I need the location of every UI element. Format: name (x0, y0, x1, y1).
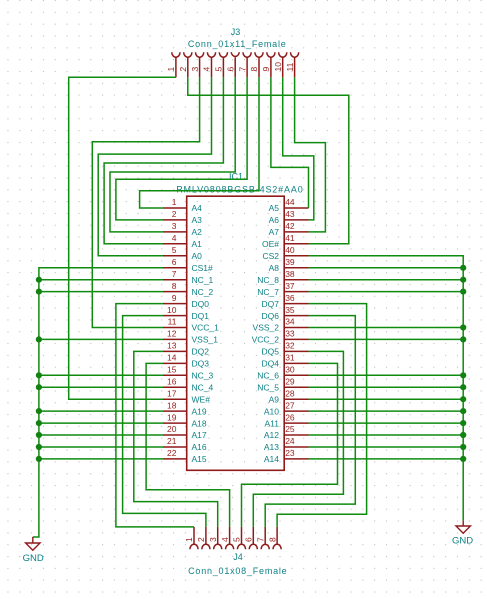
junction left rail row 15 (36, 372, 42, 378)
J4 pin 5 (232, 527, 246, 549)
svg-text:14: 14 (167, 353, 177, 363)
IC1 pin 28 (A9) (269, 388, 309, 404)
svg-text:A15: A15 (192, 454, 207, 464)
svg-text:21: 21 (167, 436, 177, 446)
wire IC1 VCC_2 to right GND rail (309, 338, 464, 340)
junction left rail row 20 (36, 432, 42, 438)
svg-text:Conn_01x08_Female: Conn_01x08_Female (188, 566, 287, 576)
wire IC1 DQ1 to J4 pin2 (123, 316, 206, 527)
svg-text:43: 43 (285, 209, 295, 219)
junction right rail row 16 (460, 384, 466, 390)
svg-text:DQ3: DQ3 (192, 359, 210, 369)
svg-text:NC_2: NC_2 (192, 287, 214, 297)
wire IC1 NC_2 to left GND rail (39, 291, 163, 293)
svg-text:1: 1 (172, 197, 177, 207)
svg-text:WE#: WE# (192, 394, 211, 404)
junction right rail row 12 (460, 336, 466, 342)
svg-text:8: 8 (172, 281, 177, 291)
svg-text:10: 10 (273, 62, 283, 72)
svg-text:GND: GND (452, 536, 473, 547)
wire IC1 A19 to left GND rail (39, 410, 163, 412)
svg-text:6: 6 (172, 257, 177, 267)
svg-text:DQ2: DQ2 (192, 347, 210, 357)
svg-text:30: 30 (285, 365, 295, 375)
IC1 pin 12 (VSS_1) (163, 329, 218, 345)
svg-text:VCC_2: VCC_2 (252, 335, 280, 345)
svg-text:A5: A5 (269, 203, 280, 213)
wire IC1 A12 to right GND rail (309, 434, 464, 436)
junction right rail row 8 (460, 289, 466, 295)
IC1 pin 25 (A12) (264, 424, 309, 440)
junction right rail row 19 (460, 420, 466, 426)
wire IC1 A11 to right GND rail (309, 422, 464, 424)
svg-text:12: 12 (167, 329, 177, 339)
wire IC1 NC_5 to right GND rail (309, 386, 464, 388)
wire IC1 DQ3 to J4 pin4 (146, 363, 230, 527)
svg-text:A14: A14 (264, 454, 279, 464)
svg-text:A19: A19 (192, 406, 207, 416)
svg-text:3: 3 (172, 221, 177, 231)
wire IC1 DQ6 to J4 pin7 (265, 316, 355, 527)
wire IC1 NC_7 to right GND rail (309, 291, 464, 293)
svg-text:2: 2 (178, 67, 188, 72)
IC1 pin 2 (A3) (163, 209, 202, 225)
svg-text:A0: A0 (192, 251, 203, 261)
svg-text:3: 3 (208, 537, 218, 542)
svg-text:NC_8: NC_8 (257, 275, 279, 285)
svg-text:26: 26 (285, 412, 295, 422)
svg-text:A4: A4 (192, 203, 203, 213)
svg-text:10: 10 (167, 305, 177, 315)
svg-text:A7: A7 (269, 227, 280, 237)
junction right rail row 11 (460, 324, 466, 330)
svg-text:NC_6: NC_6 (257, 371, 279, 381)
IC1 pin 17 (WE#) (163, 388, 210, 404)
wire IC1 NC_4 to left GND rail (39, 386, 163, 388)
IC1 pin 34 (VSS_2) (253, 317, 309, 333)
svg-text:2: 2 (196, 537, 206, 542)
wire J3 pin7 to IC1 A3 (116, 77, 247, 220)
svg-text:OE#: OE# (262, 239, 279, 249)
svg-text:33: 33 (285, 329, 295, 339)
svg-text:A3: A3 (192, 215, 203, 225)
IC1 pin 22 (A15) (163, 448, 207, 464)
junction right rail row 20 (460, 432, 466, 438)
svg-text:3: 3 (190, 67, 200, 72)
svg-text:A6: A6 (269, 215, 280, 225)
svg-text:J3: J3 (231, 27, 241, 37)
svg-text:A11: A11 (265, 418, 280, 428)
J3 pin 9 (261, 52, 275, 77)
svg-text:VSS_1: VSS_1 (192, 335, 219, 345)
IC1 pin 39 (A8) (269, 257, 309, 273)
svg-text:27: 27 (285, 400, 295, 410)
wire IC1 A14 to right GND rail (309, 458, 464, 460)
wire IC1 DQ7 to J4 pin8 (277, 304, 367, 527)
svg-text:17: 17 (167, 388, 177, 398)
svg-text:1: 1 (166, 67, 176, 72)
IC1 pin 20 (A17) (163, 424, 207, 440)
wire IC1 A10 to right GND rail (309, 410, 464, 412)
IC1 pin 31 (DQ4) (262, 353, 309, 369)
J4 pin 7 (255, 527, 269, 549)
svg-text:24: 24 (285, 436, 295, 446)
svg-text:4: 4 (220, 537, 230, 542)
svg-text:16: 16 (167, 376, 177, 386)
svg-text:NC_7: NC_7 (257, 287, 279, 297)
wire IC1 NC_1 to left GND rail (39, 279, 163, 281)
junction right rail row 7 (460, 277, 466, 283)
wire IC1 NC_8 to right GND rail (309, 279, 464, 281)
svg-text:A17: A17 (192, 430, 207, 440)
wire IC1 DQ2 to J4 pin3 (134, 351, 218, 527)
IC1 pin 5 (A0) (163, 245, 202, 261)
IC1 pin 23 (A14) (264, 448, 309, 464)
svg-text:A1: A1 (192, 239, 203, 249)
J4 pin 1 (184, 527, 198, 549)
IC1 pin 1 (A4) (163, 197, 202, 213)
IC1 pin 3 (A2) (163, 221, 202, 237)
svg-text:A16: A16 (192, 442, 207, 452)
IC1 pin 4 (A1) (163, 233, 202, 249)
IC1 pin 16 (NC_4) (163, 376, 214, 392)
svg-text:Conn_01x11_Female: Conn_01x11_Female (188, 39, 287, 49)
IC1 pin 15 (NC_3) (163, 365, 214, 381)
svg-text:29: 29 (285, 376, 295, 386)
svg-text:J4: J4 (233, 552, 243, 562)
junction left rail row 19 (36, 420, 42, 426)
svg-text:VSS_2: VSS_2 (253, 323, 280, 333)
svg-text:7: 7 (237, 67, 247, 72)
IC1 pin 13 (DQ2) (163, 341, 209, 357)
svg-text:DQ0: DQ0 (192, 299, 210, 309)
wire IC1 NC_3 to left GND rail (39, 374, 163, 376)
svg-text:34: 34 (285, 317, 295, 327)
wire J3 pin6 to IC1 A2 (110, 77, 235, 232)
svg-text:A2: A2 (192, 227, 203, 237)
svg-text:5: 5 (232, 537, 242, 542)
svg-text:28: 28 (285, 388, 295, 398)
svg-text:5: 5 (172, 245, 177, 255)
J4 pin 6 (244, 527, 258, 549)
svg-text:20: 20 (167, 424, 177, 434)
IC1 pin 38 (NC_8) (257, 269, 308, 285)
svg-text:15: 15 (167, 365, 177, 375)
wire J3 pin9 to IC1 A5 (271, 77, 309, 208)
junction left rail row 12 (36, 336, 42, 342)
IC1 pin 32 (DQ5) (262, 341, 309, 357)
wire IC1 VSS_2 to right GND rail (309, 327, 464, 329)
IC1 pin 6 (CS1#) (163, 257, 213, 273)
svg-text:DQ6: DQ6 (262, 311, 280, 321)
IC1 pin 35 (DQ6) (262, 305, 309, 321)
svg-text:8: 8 (249, 67, 259, 72)
ground symbol left GND (23, 537, 44, 564)
junction left rail row 16 (36, 384, 42, 390)
IC1 pin 24 (A13) (264, 436, 309, 452)
wire J3 pin1 to IC1 WE# (69, 77, 176, 399)
svg-text:6: 6 (244, 537, 254, 542)
IC1 pin 40 (CS2) (262, 245, 308, 261)
junction left rail row 18 (36, 408, 42, 414)
wire J3 pin5 to IC1 A1 (104, 77, 223, 244)
svg-text:RMLV0808BGSB-4S2#AA0: RMLV0808BGSB-4S2#AA0 (176, 185, 303, 195)
svg-text:41: 41 (285, 233, 295, 243)
svg-text:A9: A9 (269, 394, 280, 404)
svg-text:7: 7 (172, 269, 177, 279)
svg-text:6: 6 (225, 67, 235, 72)
junction right rail row 21 (460, 444, 466, 450)
wire J3 pin11 to IC1 A7 (295, 77, 326, 232)
junction right rail row 18 (460, 408, 466, 414)
svg-text:NC_3: NC_3 (192, 371, 214, 381)
wire J3 pin10 to IC1 A6 (283, 77, 314, 220)
svg-text:22: 22 (167, 448, 177, 458)
wire IC1 NC_6 to right GND rail (309, 374, 464, 376)
svg-text:7: 7 (255, 537, 265, 542)
wire right GND rail (309, 256, 464, 521)
svg-text:9: 9 (172, 293, 177, 303)
wire IC1 DQ5 to J4 pin6 (253, 351, 343, 527)
svg-text:4: 4 (202, 67, 212, 72)
svg-text:4: 4 (172, 233, 177, 243)
IC IC1 body outline (187, 196, 285, 470)
wire IC1 A9 to right GND rail (309, 398, 464, 400)
wire IC1 DQ0 to J4 pin1 (116, 304, 194, 527)
svg-text:DQ1: DQ1 (192, 311, 210, 321)
IC1 pin 19 (A18) (163, 412, 207, 428)
svg-text:23: 23 (285, 448, 295, 458)
J4 pin 3 (208, 527, 222, 549)
J3 pin 11 (285, 52, 299, 77)
IC1 pin 7 (NC_1) (163, 269, 214, 285)
wire IC1 A16 to left GND rail (39, 446, 163, 448)
svg-text:CS1#: CS1# (192, 263, 214, 273)
svg-text:8: 8 (267, 537, 277, 542)
junction right rail row 6 (460, 265, 466, 271)
J4 pin 2 (196, 527, 210, 549)
svg-text:NC_1: NC_1 (192, 275, 214, 285)
junction right rail row 22 (460, 456, 466, 462)
svg-text:35: 35 (285, 305, 295, 315)
wire IC1 DQ4 to J4 pin5 (242, 363, 338, 527)
IC1 pin 44 (A5) (269, 197, 309, 213)
svg-text:25: 25 (285, 424, 295, 434)
J4 pin 8 (267, 527, 281, 549)
wire IC1 A8 to right GND rail (309, 267, 464, 269)
svg-text:VCC_1: VCC_1 (192, 323, 220, 333)
J3 pin 1 (166, 52, 180, 77)
IC1 pin 8 (NC_2) (163, 281, 214, 297)
svg-text:A18: A18 (192, 418, 207, 428)
IC1 pin 18 (A19) (163, 400, 207, 416)
J3 pin 10 (273, 52, 287, 77)
svg-text:32: 32 (285, 341, 295, 351)
IC1 pin 9 (DQ0) (163, 293, 209, 309)
IC1 pin 21 (A16) (163, 436, 207, 452)
IC1 pin 36 (DQ7) (262, 293, 309, 309)
svg-text:A13: A13 (264, 442, 279, 452)
IC1 pin 27 (A10) (264, 400, 309, 416)
svg-text:A10: A10 (264, 406, 279, 416)
IC1 pin 11 (VCC_1) (163, 317, 219, 333)
J3 pin 2 (178, 52, 192, 77)
J4 pin 4 (220, 527, 234, 549)
J3 pin 5 (214, 52, 228, 77)
J3 pin 6 (225, 52, 239, 77)
IC1 pin 42 (A7) (269, 221, 309, 237)
wire IC1 A18 to left GND rail (39, 422, 163, 424)
IC1 pin 29 (NC_5) (257, 376, 308, 392)
IC1 pin 10 (DQ1) (163, 305, 209, 321)
wire J3 pin3 to IC1 VCC_1 (92, 77, 199, 327)
svg-text:GND: GND (23, 553, 44, 564)
svg-text:18: 18 (167, 400, 177, 410)
svg-text:DQ5: DQ5 (262, 347, 280, 357)
IC1 pin 33 (VCC_2) (252, 329, 309, 345)
ground symbol right GND (452, 521, 473, 547)
svg-text:NC_5: NC_5 (257, 382, 279, 392)
svg-text:11: 11 (168, 317, 177, 327)
junction left rail row 7 (36, 277, 42, 283)
svg-text:36: 36 (285, 293, 295, 303)
svg-text:1: 1 (184, 537, 194, 542)
svg-text:NC_4: NC_4 (192, 382, 214, 392)
J3 pin 4 (202, 52, 216, 77)
wire J3 pin4 to IC1 A0 (98, 77, 211, 256)
junction left rail row 21 (36, 444, 42, 450)
wire IC1 VSS_1 to left GND rail (39, 338, 163, 340)
IC1 pin 14 (DQ3) (163, 353, 209, 369)
junction left rail row 8 (36, 289, 42, 295)
junction left rail row 22 (36, 456, 42, 462)
svg-text:A8: A8 (269, 263, 280, 273)
svg-text:44: 44 (285, 197, 295, 207)
svg-text:DQ7: DQ7 (262, 299, 280, 309)
svg-text:5: 5 (214, 67, 224, 72)
svg-text:9: 9 (261, 67, 271, 72)
junction right rail row 15 (460, 372, 466, 378)
svg-text:40: 40 (285, 245, 295, 255)
svg-text:19: 19 (167, 412, 177, 422)
svg-text:13: 13 (167, 341, 177, 351)
wire IC1 A17 to left GND rail (39, 434, 163, 436)
IC1 pin 37 (NC_7) (257, 281, 308, 297)
IC1 pin 26 (A11) (265, 412, 309, 428)
svg-text:CS2: CS2 (262, 251, 279, 261)
J3 pin 8 (249, 52, 263, 77)
J3 pin 3 (190, 52, 204, 77)
wire left GND rail (33, 268, 163, 537)
svg-text:38: 38 (285, 269, 295, 279)
svg-text:31: 31 (285, 353, 295, 363)
IC1 pin 30 (NC_6) (257, 365, 308, 381)
svg-text:37: 37 (285, 281, 295, 291)
svg-text:A12: A12 (264, 430, 279, 440)
svg-text:11: 11 (285, 62, 295, 71)
svg-text:42: 42 (285, 221, 295, 231)
IC1 pin 43 (A6) (269, 209, 309, 225)
svg-text:2: 2 (172, 209, 177, 219)
J3 pin 7 (237, 52, 251, 77)
wire J3 pin2 to IC1 OE# (188, 77, 349, 244)
wire IC1 A15 to left GND rail (39, 458, 163, 460)
wire IC1 A13 to right GND rail (309, 446, 464, 448)
IC1 pin 41 (OE#) (262, 233, 309, 249)
svg-text:39: 39 (285, 257, 295, 267)
junction right rail row 17 (460, 396, 466, 402)
wire J3 pin8 to IC1 A4 (140, 77, 259, 208)
svg-text:DQ4: DQ4 (262, 359, 280, 369)
